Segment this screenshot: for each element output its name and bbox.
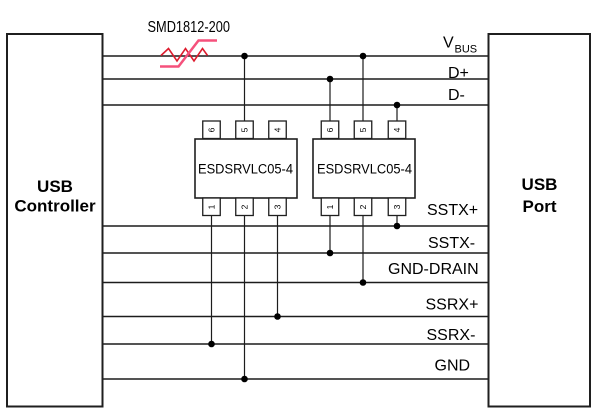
svg-text:SSRX+: SSRX+ [426,297,479,314]
svg-text:5: 5 [358,127,368,132]
wire U1 pin3 to SSRX+ [277,214,279,317]
wire U1 pin5 to VBUS [244,56,246,122]
wire SSTX- [103,252,489,254]
USB Port block [489,34,591,407]
svg-text:1: 1 [325,204,335,209]
svg-text:D-: D- [448,87,465,104]
wire U2 pin4 to D- [396,105,398,122]
svg-text:4: 4 [392,127,402,132]
ESD suppressor U1 ESDSRVLC05-4 [195,139,297,198]
U1 pin 1 [203,198,221,216]
svg-text:5: 5 [240,127,250,132]
U2 pin 3 [388,198,406,216]
svg-text:SSTX+: SSTX+ [427,202,478,219]
wire U2 pin3 to SSTX+ [396,214,398,226]
junction U2 pin2 / GND-DRAIN [360,279,367,286]
svg-text:2: 2 [358,204,368,209]
U1 pin 5 [236,121,254,139]
U2 pin 6 [321,121,339,139]
svg-text:D+: D+ [448,65,469,82]
wire D+ [103,78,489,80]
svg-text:USB: USB [522,175,558,194]
svg-text:ESDSRVLC05-4: ESDSRVLC05-4 [317,162,412,177]
svg-text:6: 6 [325,127,335,132]
svg-text:2: 2 [240,204,250,209]
wire U2 pin1 to SSTX- [329,214,331,253]
svg-text:1: 1 [207,204,217,209]
svg-text:Controller: Controller [14,197,96,216]
svg-text:4: 4 [273,127,283,132]
wire SSTX+ [103,225,489,227]
U2 pin 2 [354,198,372,216]
svg-text:USB: USB [37,177,73,196]
junction U1 pin3 / SSRX+ [274,313,281,320]
svg-text:GND-DRAIN: GND-DRAIN [388,261,479,278]
U1 pin 3 [269,198,287,216]
wire U2 pin5 to VBUS [362,56,364,122]
USB Controller block [7,34,103,407]
svg-text:3: 3 [273,204,283,209]
wire VBUS [103,55,489,57]
svg-text:3: 3 [392,204,402,209]
junction U2 pin3 / SSTX+ [394,223,401,230]
U2 pin 5 [354,121,372,139]
U1 pin 6 [203,121,221,139]
U1 pin 2 [236,198,254,216]
junction U2 pin6 / D+ [327,76,334,83]
wire SSRX- [103,343,489,345]
wire GND [103,378,489,380]
svg-text:Port: Port [523,197,557,216]
wire GND-DRAIN [103,282,489,284]
U1 pin 4 [269,121,287,139]
ESD suppressor U2 ESDSRVLC05-4 [313,139,415,198]
svg-text:6: 6 [207,127,217,132]
wire U1 pin1 to SSRX- [211,214,213,344]
net label VBUS [443,35,477,56]
wire D- [103,104,489,106]
U2 pin 1 [321,198,339,216]
svg-text:GND: GND [435,358,471,375]
PTC resettable fuse F1 (polymeric, on VBUS) [160,41,217,67]
junction U1 pin1 / SSRX- [208,341,215,348]
junction U1 pin5 / VBUS [241,53,248,60]
wire SSRX+ [103,316,489,318]
svg-text:BUS: BUS [455,44,478,56]
junction U2 pin1 / SSTX- [327,250,334,257]
svg-text:SMD1812-200: SMD1812-200 [148,19,231,36]
svg-text:SSRX-: SSRX- [427,327,476,344]
svg-text:ESDSRVLC05-4: ESDSRVLC05-4 [198,162,293,177]
svg-text:V: V [443,35,454,52]
U2 pin 4 [388,121,406,139]
junction U1 pin2 / GND [241,376,248,383]
junction U2 pin4 / D- [394,102,401,109]
wire U1 pin2 to GND [244,214,246,379]
wire U2 pin2 to GND-DRAIN [362,214,364,283]
wire U2 pin6 to D+ [329,79,331,122]
junction U2 pin5 / VBUS [360,53,367,60]
svg-text:SSTX-: SSTX- [428,235,475,252]
